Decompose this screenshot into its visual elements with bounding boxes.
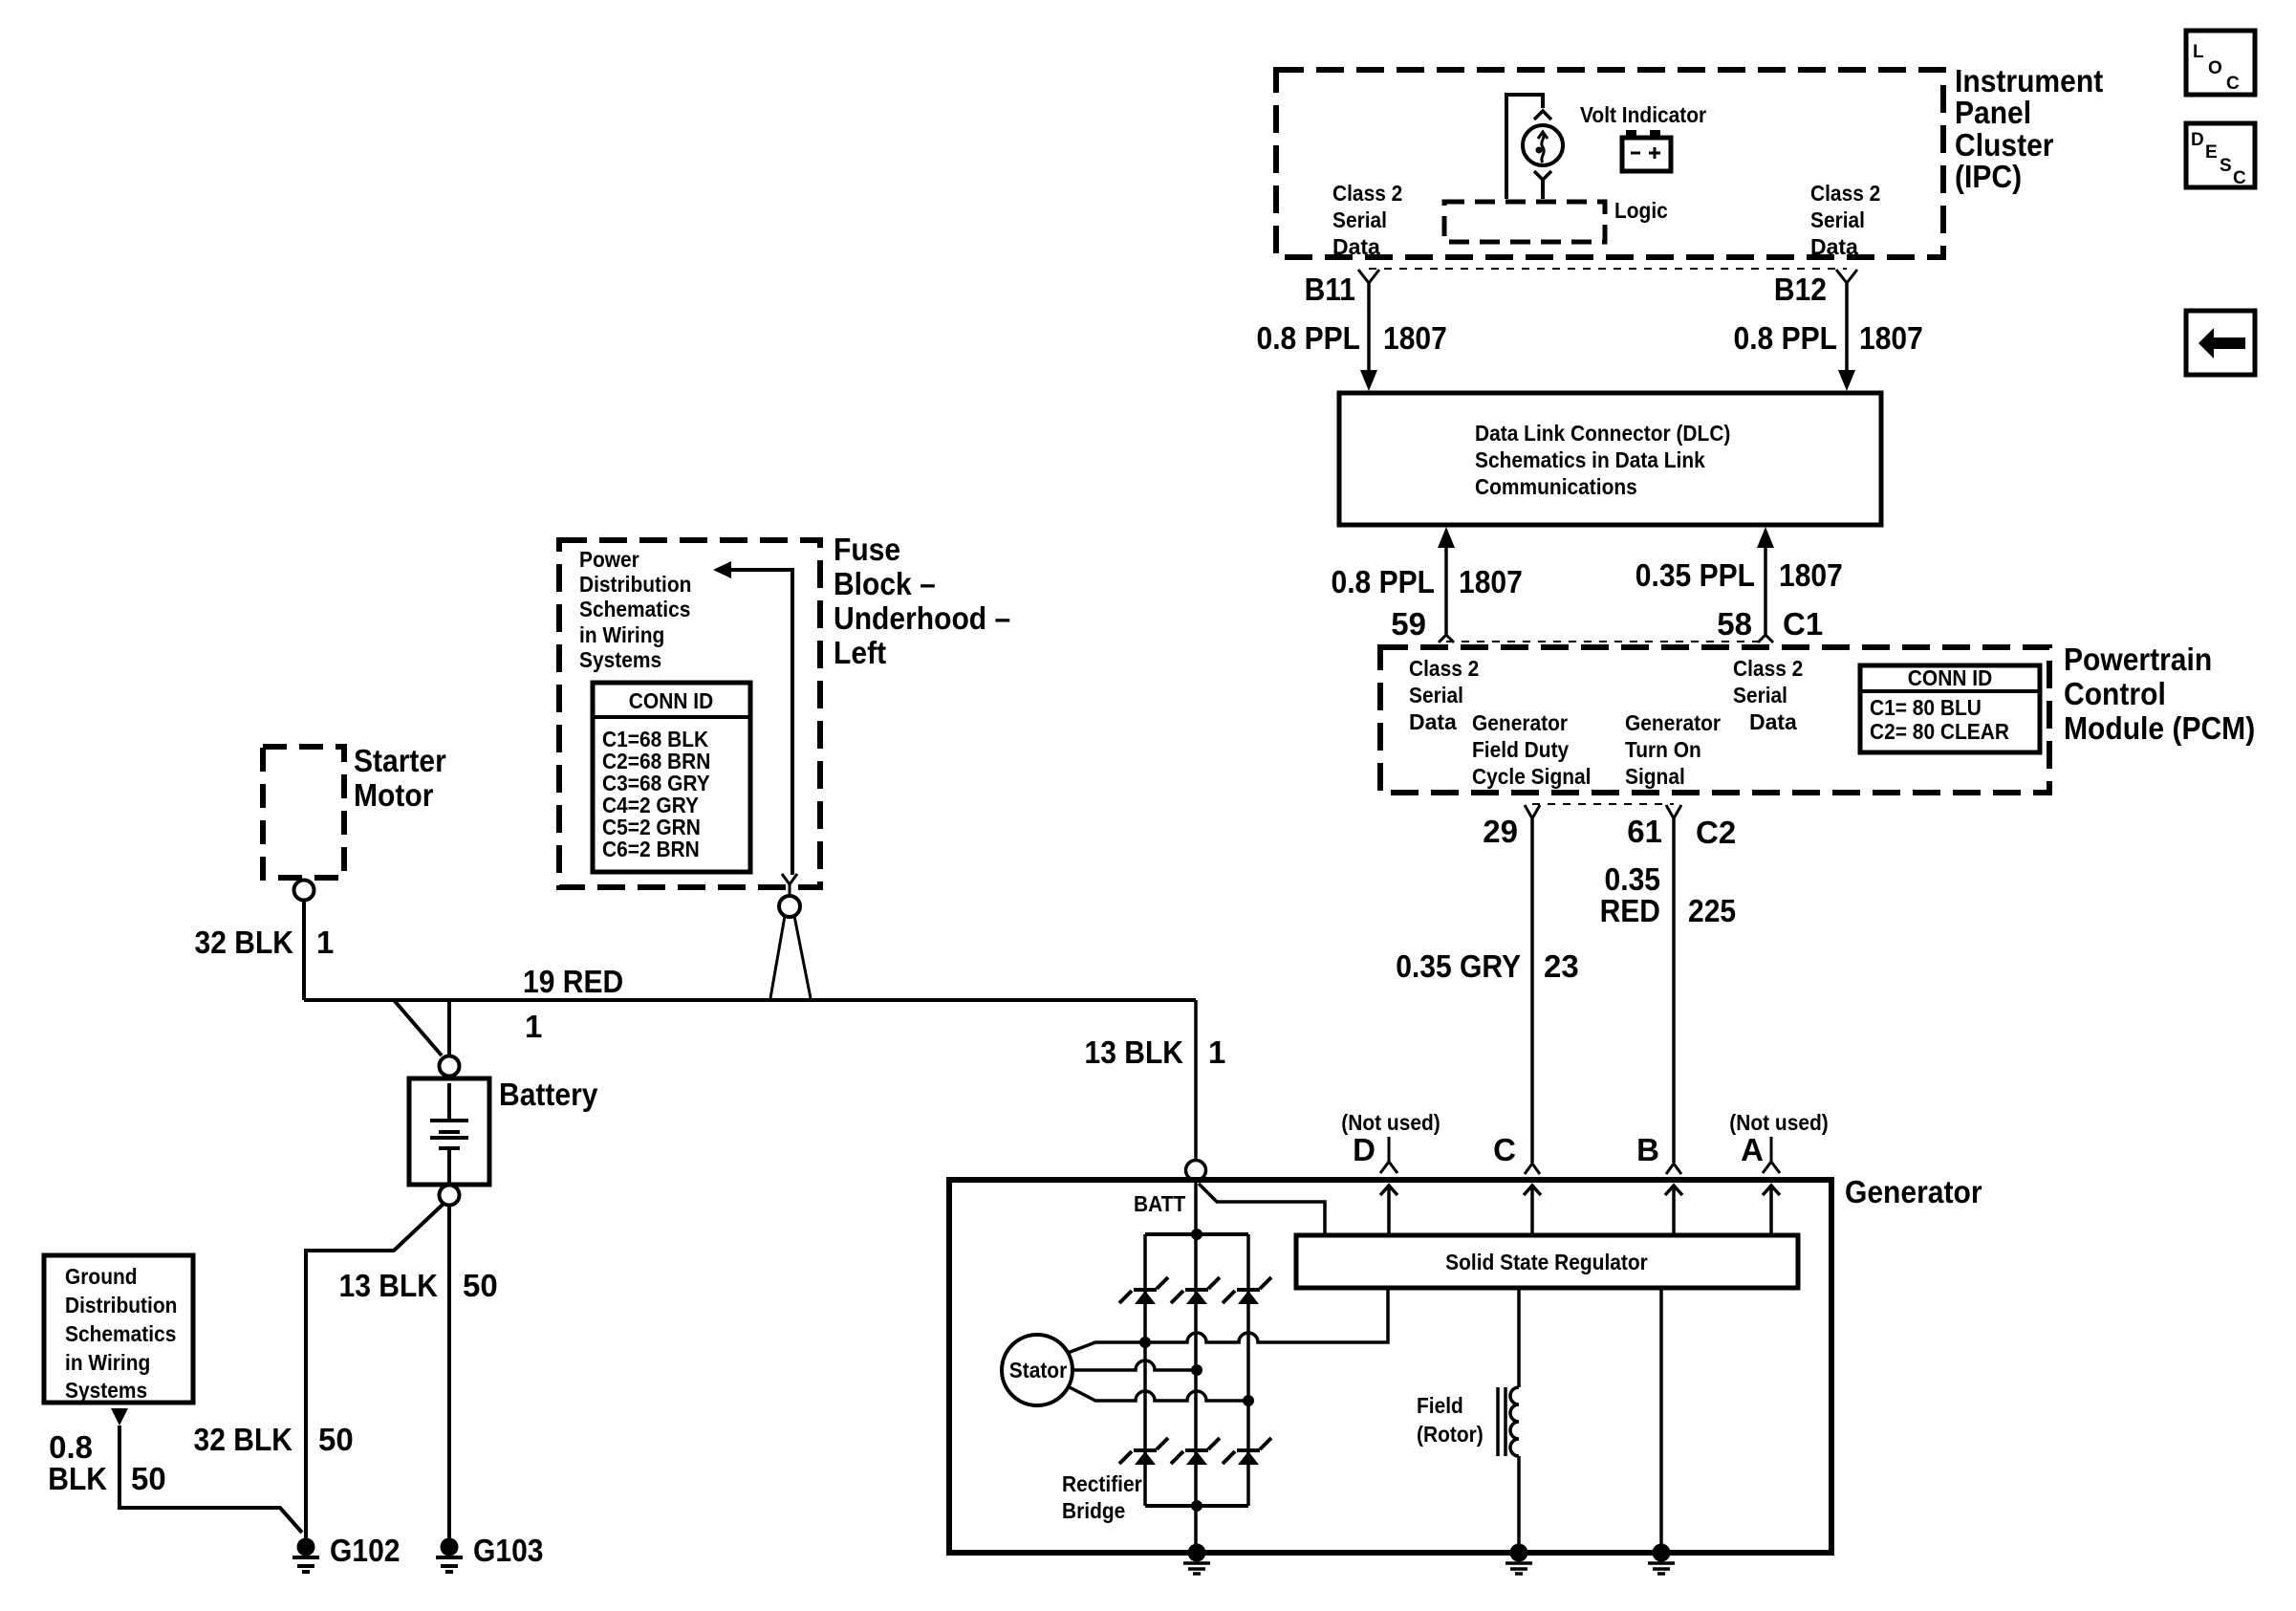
svg-text:Control: Control bbox=[2064, 676, 2166, 711]
svg-text:Distribution: Distribution bbox=[65, 1293, 177, 1317]
svg-text:Communications: Communications bbox=[1475, 474, 1637, 499]
svg-text:50: 50 bbox=[131, 1461, 166, 1496]
svg-text:Generator: Generator bbox=[1845, 1174, 1982, 1209]
svg-text:Serial: Serial bbox=[1733, 683, 1787, 708]
svg-text:50: 50 bbox=[318, 1422, 354, 1457]
svg-text:in Wiring: in Wiring bbox=[579, 622, 664, 647]
svg-text:0.8 PPL: 0.8 PPL bbox=[1734, 320, 1838, 356]
svg-text:58: 58 bbox=[1717, 606, 1752, 642]
svg-text:Class 2: Class 2 bbox=[1810, 181, 1880, 206]
svg-text:B: B bbox=[1636, 1132, 1659, 1167]
svg-text:Bridge: Bridge bbox=[1062, 1498, 1125, 1523]
svg-text:29: 29 bbox=[1483, 814, 1518, 849]
svg-text:Ground: Ground bbox=[65, 1264, 138, 1289]
svg-text:C2= 80 CLEAR: C2= 80 CLEAR bbox=[1870, 719, 2009, 744]
svg-text:S: S bbox=[2220, 156, 2232, 176]
svg-text:Class 2: Class 2 bbox=[1733, 656, 1803, 681]
svg-text:B12: B12 bbox=[1774, 272, 1827, 307]
svg-text:C2: C2 bbox=[1696, 815, 1736, 850]
svg-text:Volt Indicator: Volt Indicator bbox=[1580, 102, 1706, 127]
svg-text:Underhood –: Underhood – bbox=[834, 600, 1010, 636]
svg-text:CONN ID: CONN ID bbox=[1908, 665, 1992, 690]
svg-text:1: 1 bbox=[1208, 1034, 1225, 1070]
svg-text:Stator: Stator bbox=[1009, 1358, 1068, 1382]
svg-text:1807: 1807 bbox=[1779, 557, 1843, 593]
svg-text:RED: RED bbox=[1600, 893, 1660, 928]
svg-text:C1: C1 bbox=[1783, 606, 1823, 642]
svg-text:Block –: Block – bbox=[834, 566, 936, 601]
svg-text:0.8 PPL: 0.8 PPL bbox=[1257, 320, 1361, 356]
svg-text:(Rotor): (Rotor) bbox=[1417, 1422, 1484, 1447]
svg-text:C: C bbox=[1493, 1132, 1516, 1167]
svg-text:1: 1 bbox=[525, 1009, 542, 1044]
svg-text:C: C bbox=[2233, 168, 2246, 188]
svg-text:Distribution: Distribution bbox=[579, 572, 691, 597]
svg-text:O: O bbox=[2208, 58, 2222, 78]
svg-text:D: D bbox=[2191, 130, 2204, 150]
svg-text:G102: G102 bbox=[330, 1533, 401, 1568]
svg-text:Instrument: Instrument bbox=[1955, 63, 2103, 98]
svg-text:1807: 1807 bbox=[1459, 564, 1523, 599]
svg-text:Data: Data bbox=[1409, 709, 1457, 734]
svg-text:32 BLK: 32 BLK bbox=[195, 925, 294, 960]
svg-text:Class 2: Class 2 bbox=[1332, 181, 1402, 206]
svg-text:C6=2 BRN: C6=2 BRN bbox=[602, 837, 700, 861]
svg-text:225: 225 bbox=[1688, 893, 1736, 928]
svg-text:Power: Power bbox=[579, 547, 639, 572]
svg-text:Serial: Serial bbox=[1409, 683, 1463, 708]
svg-text:1807: 1807 bbox=[1383, 320, 1447, 356]
svg-text:Schematics: Schematics bbox=[579, 597, 690, 621]
svg-text:Generator: Generator bbox=[1472, 710, 1568, 735]
svg-text:Schematics: Schematics bbox=[65, 1321, 176, 1346]
svg-text:Data: Data bbox=[1810, 234, 1858, 259]
svg-text:Serial: Serial bbox=[1810, 207, 1865, 232]
svg-text:Cycle Signal: Cycle Signal bbox=[1472, 764, 1592, 789]
svg-text:Serial: Serial bbox=[1332, 207, 1387, 232]
svg-text:Rectifier: Rectifier bbox=[1062, 1471, 1142, 1496]
svg-text:Solid State Regulator: Solid State Regulator bbox=[1445, 1250, 1648, 1274]
svg-text:Systems: Systems bbox=[65, 1378, 147, 1403]
svg-text:1807: 1807 bbox=[1859, 320, 1923, 356]
svg-text:Motor: Motor bbox=[354, 777, 434, 813]
svg-text:B11: B11 bbox=[1305, 272, 1355, 307]
svg-text:61: 61 bbox=[1627, 814, 1662, 849]
svg-text:CONN ID: CONN ID bbox=[629, 688, 713, 713]
svg-text:13 BLK: 13 BLK bbox=[1085, 1034, 1184, 1070]
svg-text:Powertrain: Powertrain bbox=[2064, 642, 2212, 677]
svg-text:BATT: BATT bbox=[1134, 1191, 1185, 1216]
svg-text:Module (PCM): Module (PCM) bbox=[2064, 710, 2255, 746]
svg-text:0.35 GRY: 0.35 GRY bbox=[1396, 948, 1521, 984]
svg-text:Panel: Panel bbox=[1955, 95, 2031, 130]
svg-text:Signal: Signal bbox=[1625, 764, 1685, 789]
svg-text:Field Duty: Field Duty bbox=[1472, 737, 1569, 762]
svg-text:Data: Data bbox=[1332, 234, 1380, 259]
svg-text:D: D bbox=[1353, 1132, 1375, 1167]
svg-text:Logic: Logic bbox=[1614, 198, 1668, 223]
svg-text:Starter: Starter bbox=[354, 743, 446, 778]
svg-text:(IPC): (IPC) bbox=[1955, 159, 2022, 194]
svg-text:Cluster: Cluster bbox=[1955, 127, 2054, 163]
svg-text:0.35: 0.35 bbox=[1605, 861, 1661, 897]
svg-text:0.8 PPL: 0.8 PPL bbox=[1332, 564, 1436, 599]
svg-text:Schematics in Data Link: Schematics in Data Link bbox=[1475, 447, 1705, 472]
svg-text:Data Link Connector (DLC): Data Link Connector (DLC) bbox=[1475, 421, 1730, 446]
svg-text:Systems: Systems bbox=[579, 647, 661, 672]
svg-text:C: C bbox=[2226, 74, 2240, 94]
svg-text:L: L bbox=[2193, 42, 2204, 62]
svg-text:32 BLK: 32 BLK bbox=[194, 1422, 293, 1457]
svg-text:C1= 80 BLU: C1= 80 BLU bbox=[1870, 695, 1982, 720]
svg-text:Data: Data bbox=[1749, 709, 1797, 734]
svg-text:G103: G103 bbox=[473, 1533, 544, 1568]
svg-text:1: 1 bbox=[316, 925, 334, 960]
svg-text:A: A bbox=[1741, 1132, 1764, 1167]
svg-text:E: E bbox=[2205, 142, 2218, 163]
svg-text:19 RED: 19 RED bbox=[523, 964, 623, 999]
svg-text:Left: Left bbox=[834, 635, 886, 670]
svg-text:50: 50 bbox=[463, 1268, 498, 1303]
svg-text:Generator: Generator bbox=[1625, 710, 1721, 735]
svg-text:Turn On: Turn On bbox=[1625, 737, 1701, 762]
svg-text:Class 2: Class 2 bbox=[1409, 656, 1479, 681]
svg-text:13 BLK: 13 BLK bbox=[339, 1268, 439, 1303]
svg-text:23: 23 bbox=[1544, 948, 1579, 984]
svg-text:Field: Field bbox=[1417, 1393, 1463, 1418]
svg-text:BLK: BLK bbox=[48, 1461, 107, 1496]
svg-text:59: 59 bbox=[1391, 606, 1426, 642]
svg-text:Battery: Battery bbox=[499, 1077, 598, 1112]
svg-text:in Wiring: in Wiring bbox=[65, 1350, 150, 1375]
svg-text:Fuse: Fuse bbox=[834, 532, 900, 567]
svg-text:0.35 PPL: 0.35 PPL bbox=[1635, 557, 1755, 593]
svg-text:0.8: 0.8 bbox=[49, 1429, 93, 1465]
